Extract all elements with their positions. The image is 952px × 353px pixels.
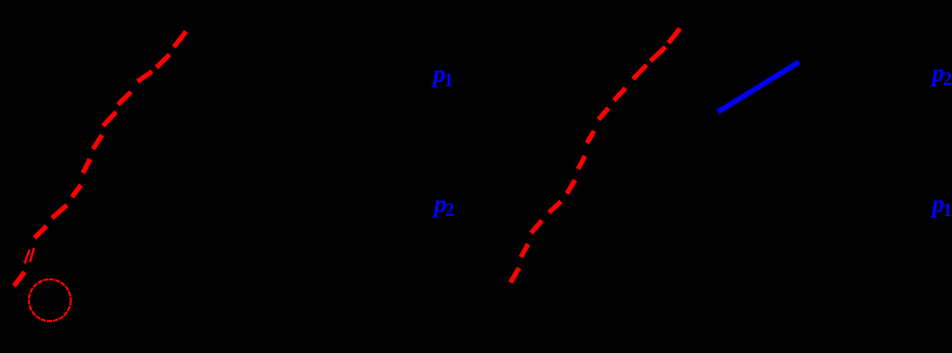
wire: right path dash 3 <box>633 65 647 79</box>
wire: right path dash 5 <box>599 108 609 120</box>
wire: right path dash 10 <box>531 221 542 234</box>
wire: right path dash 7 <box>578 156 585 169</box>
wire: right path dash 6 <box>587 131 594 143</box>
wire: left path dash 9 <box>52 205 67 218</box>
wire: left path thin double dash near bend <box>30 248 34 262</box>
wire: right path dash 12 <box>511 268 520 283</box>
wire: left path final thick dash <box>14 272 25 286</box>
wire: left path dash 5 <box>103 112 116 126</box>
wire: right path dash 4 <box>614 88 626 101</box>
wire: blue shortcut segment (right panel) <box>718 62 799 112</box>
wire: left path dash 4 <box>118 92 131 105</box>
wire: left path dash 7 <box>83 159 90 173</box>
wire: right path dash 2 <box>651 47 666 61</box>
wire: left path dash 3 <box>138 72 153 82</box>
node: red circle marker (left panel) <box>29 279 71 321</box>
wire: right path dash 11 <box>521 244 528 257</box>
wire: right path dash 1 <box>669 29 681 44</box>
wire: right path dash 9 <box>549 202 561 213</box>
wire: right path dash 8 <box>567 180 575 194</box>
wire: left path dash 1 <box>174 32 186 48</box>
wire: left path dash 2 <box>157 55 170 68</box>
wire: left path dash 8 <box>72 185 81 197</box>
wire: left path dash 10 <box>35 226 47 238</box>
wire: left path dash 6 <box>93 135 102 149</box>
